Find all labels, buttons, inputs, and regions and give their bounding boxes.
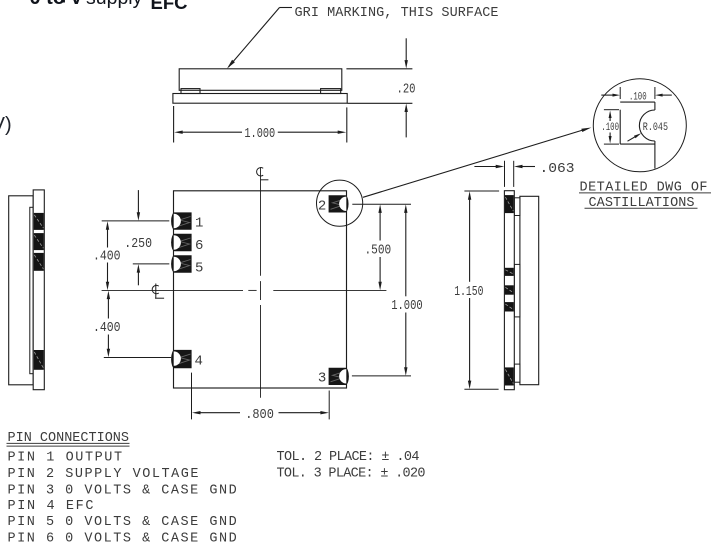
detail R.045 leader xyxy=(628,136,637,141)
svg-text:.100: .100 xyxy=(629,91,647,103)
svg-text:.250: .250 xyxy=(124,236,152,252)
detail circle xyxy=(593,79,686,172)
main view: package outline xyxy=(174,191,347,388)
side view: right foot xyxy=(321,89,341,94)
dim .500 xyxy=(378,204,381,213)
svg-text:3: 3 xyxy=(318,370,326,386)
extension line pin1 center xyxy=(102,220,170,222)
dim 1.000 (right) xyxy=(404,204,407,213)
double underline xyxy=(7,442,130,444)
svg-text:.063: .063 xyxy=(540,161,575,177)
dim .063 xyxy=(474,166,497,168)
extension line pin4 pad edge xyxy=(191,373,193,420)
detail: bottom edge xyxy=(620,143,655,145)
svg-text:PIN 6 0 VOLTS & CASE GND: PIN 6 0 VOLTS & CASE GND xyxy=(8,532,237,547)
side view: left foot xyxy=(181,89,200,94)
right view pad a xyxy=(505,268,514,276)
left view pad pin 6 xyxy=(34,233,44,250)
svg-text:PIN 3 0 VOLTS & CASE GND: PIN 3 0 VOLTS & CASE GND xyxy=(8,483,237,498)
pin 5 castellation pad xyxy=(171,255,192,272)
underline xyxy=(585,207,698,209)
detail: right edge upper xyxy=(654,102,656,110)
pin 4 castellation pad xyxy=(171,350,192,368)
svg-text:.800: .800 xyxy=(245,407,274,423)
dim 1.000 (side view width) extension lines xyxy=(173,106,175,143)
detail: right edge lower xyxy=(654,141,656,169)
svg-text:1.000: 1.000 xyxy=(391,298,423,314)
detail: castellation arc R.045 xyxy=(639,110,655,141)
svg-text:4: 4 xyxy=(195,353,203,369)
dim .20 extension lines xyxy=(346,68,412,70)
detail dim .100 top extension ticks xyxy=(619,87,621,99)
centerline symbol (top) xyxy=(257,168,264,176)
leader from callout circle to detail circle xyxy=(363,129,585,197)
pin 3 castellation pad xyxy=(329,368,349,385)
svg-text:1.000: 1.000 xyxy=(244,126,275,142)
svg-text:.400: .400 xyxy=(93,249,121,265)
svg-text:.500: .500 xyxy=(365,242,392,258)
right side view: step middle xyxy=(514,264,520,317)
detail: left edge xyxy=(619,110,621,144)
clipped heading text: 0 to +Vsupply EFC xyxy=(30,0,66,10)
dim .400 (lower) xyxy=(107,291,110,300)
left side view: body xyxy=(9,196,34,385)
detail dim .100 left xyxy=(609,111,612,119)
right side view: edge strip xyxy=(504,191,514,390)
svg-text:1: 1 xyxy=(195,215,203,231)
pin 2 castellation pad xyxy=(329,195,349,212)
right side view: body xyxy=(520,196,539,384)
dim .20 xyxy=(405,38,407,61)
svg-text:2: 2 xyxy=(318,198,326,214)
left side view: edge strip xyxy=(33,190,44,390)
extension line pin3 pad edge xyxy=(328,391,330,420)
extension line pin5 center xyxy=(133,263,170,265)
side view: base plate xyxy=(173,94,347,104)
left view pad pin 5 xyxy=(34,253,44,271)
underline xyxy=(579,192,711,194)
dim .250 xyxy=(137,190,139,213)
svg-text:TOL. 3 PLACE: ± .020: TOL. 3 PLACE: ± .020 xyxy=(277,466,426,481)
svg-text:GRI MARKING, THIS SURFACE: GRI MARKING, THIS SURFACE xyxy=(295,6,499,21)
svg-text:PIN 1 OUTPUT: PIN 1 OUTPUT xyxy=(8,451,123,466)
clipped left-edge text (V) xyxy=(0,114,12,137)
svg-text:5: 5 xyxy=(195,261,203,277)
svg-text:.400: .400 xyxy=(93,320,121,336)
svg-text:PIN 5 0 VOLTS & CASE GND: PIN 5 0 VOLTS & CASE GND xyxy=(8,515,237,530)
extension line pin4 center xyxy=(104,357,171,359)
dim .063 extension lines xyxy=(504,161,506,187)
side view: package body xyxy=(179,69,342,91)
right view pad c xyxy=(505,302,514,311)
left side view: inner step xyxy=(30,207,34,373)
detail dim .100 top xyxy=(601,94,612,96)
extension line pin3 center xyxy=(352,375,411,377)
dim .400 (upper) xyxy=(106,221,109,230)
dim 1.000 (side view) xyxy=(182,131,243,133)
right side view: step bottom xyxy=(514,364,520,382)
svg-text:6: 6 xyxy=(195,238,203,254)
leader arrowhead to detail circle xyxy=(581,128,591,133)
centerline symbol (left) xyxy=(152,285,159,293)
vertical centerline xyxy=(260,168,262,276)
pin 6 castellation pad xyxy=(171,234,191,251)
svg-text:.100: .100 xyxy=(601,122,619,134)
detail: top edge xyxy=(620,101,655,103)
extension line pin2 center xyxy=(352,203,411,205)
left view pad pin 1 xyxy=(34,213,44,230)
pin 1 castellation pad xyxy=(171,212,192,229)
right view pad b xyxy=(505,285,514,294)
left view pad pin 4 xyxy=(34,350,44,370)
dim 1.150 extension lines xyxy=(464,190,499,192)
svg-text:.20: .20 xyxy=(397,81,416,97)
svg-text:PIN 4 EFC: PIN 4 EFC xyxy=(8,499,94,514)
right view pad pin 2 xyxy=(505,195,514,213)
dim 1.150 xyxy=(468,191,471,200)
svg-text:R.045: R.045 xyxy=(643,122,668,134)
svg-text:1.150: 1.150 xyxy=(454,284,483,300)
right view pad pin 3 xyxy=(505,367,514,385)
dim .800 xyxy=(192,411,201,414)
svg-text:PIN 2 SUPPLY VOLTAGE: PIN 2 SUPPLY VOLTAGE xyxy=(8,467,199,482)
detail callout circle around pin 2 xyxy=(317,180,363,226)
right side view: step top xyxy=(514,198,520,216)
horizontal centerline xyxy=(102,289,243,291)
leader: GRI MARKING xyxy=(280,7,293,9)
detail dim .100 left extension lines xyxy=(604,109,619,111)
svg-text:TOL. 2 PLACE: ± .04: TOL. 2 PLACE: ± .04 xyxy=(277,450,420,465)
leader arrowhead xyxy=(227,60,235,69)
